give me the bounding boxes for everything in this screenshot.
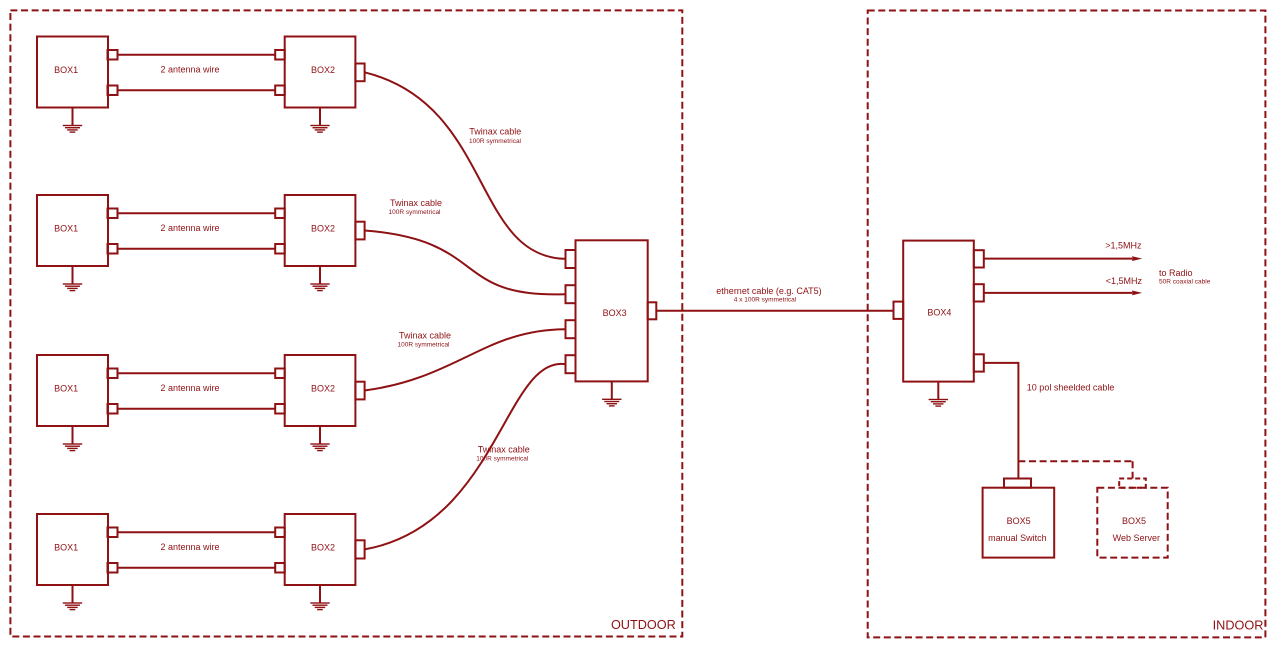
box BOX1 row1 <box>37 37 108 108</box>
BOX2 row2 output connector <box>355 222 364 240</box>
svg-text:Twinax cable: Twinax cable <box>478 445 530 455</box>
BOX2 row2 port b <box>275 244 285 254</box>
dashed wire to web server vertical <box>1132 461 1134 478</box>
svg-text:OUTDOOR: OUTDOOR <box>611 618 676 632</box>
svg-text:BOX1: BOX1 <box>54 383 78 393</box>
label <1,5MHz <box>1106 276 1143 286</box>
BOX2 row1 port a <box>275 50 285 60</box>
svg-text:>1,5MHz: >1,5MHz <box>1105 241 1142 251</box>
svg-text:100R symmetrical: 100R symmetrical <box>469 138 522 145</box>
ground under BOX2 row3 <box>310 426 329 451</box>
box BOX1 row3 <box>37 355 108 426</box>
BOX2 row4 port a <box>275 528 285 538</box>
label ethernet cable <box>716 286 821 304</box>
antenna wire 2a <box>118 212 276 214</box>
ground under BOX3 <box>602 381 621 406</box>
ethernet wire BOX3 to BOX4 <box>656 310 893 312</box>
label to Radio <box>1159 268 1211 286</box>
ground under BOX2 row4 <box>310 585 329 610</box>
OUTDOOR zone dashed border <box>10 10 682 636</box>
antenna wire 1a <box>118 54 276 56</box>
ground under BOX2 row1 <box>310 108 329 133</box>
arrow wire >1,5MHz <box>984 256 1142 261</box>
box BOX5 manual switch <box>983 488 1055 558</box>
BOX1 row3 port b <box>108 404 118 414</box>
BOX1 row3 port a <box>108 369 118 379</box>
INDOOR label <box>1213 619 1264 633</box>
ground under BOX1 row4 <box>63 585 82 610</box>
svg-text:to Radio: to Radio <box>1159 268 1193 278</box>
label Twinax cable row2 <box>388 198 442 216</box>
svg-text:Web Server: Web Server <box>1113 533 1160 543</box>
label Twinax cable row1 <box>469 127 522 145</box>
BOX1 row2 port b <box>108 244 118 254</box>
box BOX1 row4 <box>37 514 108 585</box>
BOX3 input connector 3 <box>566 320 576 338</box>
BOX2 row3 port a <box>275 369 285 379</box>
twinax wire row4 to BOX3 <box>365 364 566 550</box>
antenna wire 4b <box>118 567 276 569</box>
wire BOX4 to BOX5 solid part <box>984 363 1019 479</box>
svg-text:BOX2: BOX2 <box>311 383 335 393</box>
svg-text:4 x 100R symmetrical: 4 x 100R symmetrical <box>734 297 797 304</box>
arrow wire <1,5MHz <box>984 291 1142 296</box>
BOX1 row1 port a <box>108 50 118 60</box>
box BOX4 <box>903 241 974 382</box>
svg-text:INDOOR: INDOOR <box>1213 619 1264 633</box>
antenna wire 1b <box>118 89 276 91</box>
BOX4 output connector 1 <box>974 250 984 267</box>
BOX3 input connector 1 <box>566 250 576 268</box>
ground under BOX1 row3 <box>63 426 82 451</box>
svg-text:Twinax cable: Twinax cable <box>469 127 521 137</box>
svg-text:ethernet cable (e.g. CAT5): ethernet cable (e.g. CAT5) <box>716 286 821 296</box>
antenna wire 3b <box>118 408 276 410</box>
svg-text:<1,5MHz: <1,5MHz <box>1106 276 1143 286</box>
svg-text:50R coaxial cable: 50R coaxial cable <box>1159 279 1211 286</box>
INDOOR zone dashed border <box>868 11 1266 638</box>
svg-text:2 antenna wire: 2 antenna wire <box>160 542 219 552</box>
ground under BOX2 row2 <box>310 266 329 291</box>
svg-text:BOX5: BOX5 <box>1122 516 1146 526</box>
BOX2 row1 output connector <box>355 64 364 82</box>
ground under BOX1 row1 <box>63 108 82 133</box>
BOX3 output connector <box>648 302 657 319</box>
BOX2 row4 port b <box>275 563 285 573</box>
svg-text:BOX4: BOX4 <box>927 308 951 318</box>
twinax wire row2 to BOX3 <box>365 231 566 295</box>
svg-text:manual Switch: manual Switch <box>988 533 1047 543</box>
BOX1 row2 port a <box>108 209 118 219</box>
box BOX2 row2 <box>285 195 356 266</box>
BOX2 row3 port b <box>275 404 285 414</box>
label Twinax cable row4 <box>476 445 530 463</box>
ground under BOX4 <box>929 382 948 407</box>
antenna wire 2b <box>118 248 276 250</box>
twinax wire row1 to BOX3 <box>365 72 566 259</box>
label 10 pol sheelded cable <box>1027 382 1115 392</box>
svg-text:100R symmetrical: 100R symmetrical <box>397 341 450 348</box>
svg-text:2 antenna wire: 2 antenna wire <box>160 65 219 75</box>
label 2 antenna wire row4 <box>160 542 219 552</box>
svg-text:BOX2: BOX2 <box>311 542 335 552</box>
twinax wire row3 to BOX3 <box>365 329 566 390</box>
svg-text:BOX2: BOX2 <box>311 223 335 233</box>
svg-text:BOX2: BOX2 <box>311 65 335 75</box>
BOX5 top connector <box>1004 479 1031 488</box>
svg-text:100R symmetrical: 100R symmetrical <box>388 209 441 216</box>
label >1,5MHz <box>1105 241 1142 251</box>
BOX1 row1 port b <box>108 86 118 96</box>
BOX4 output connector 2 <box>974 284 984 301</box>
box BOX2 row3 <box>285 355 356 426</box>
BOX4 output connector 3 <box>974 354 984 371</box>
label 2 antenna wire row3 <box>160 383 219 393</box>
svg-text:Twinax cable: Twinax cable <box>390 198 442 208</box>
box BOX5 web server dashed <box>1097 488 1167 558</box>
svg-text:100R symmetrical: 100R symmetrical <box>476 456 529 463</box>
box BOX3 <box>576 240 648 381</box>
BOX3 input connector 4 <box>566 355 576 373</box>
BOX2 row2 port a <box>275 209 285 219</box>
ground under BOX1 row2 <box>63 266 82 291</box>
svg-text:BOX5: BOX5 <box>1007 516 1031 526</box>
BOX1 row4 port b <box>108 563 118 573</box>
box BOX1 row2 <box>37 195 108 266</box>
BOX4 input connector <box>894 302 904 319</box>
BOX3 input connector 2 <box>566 285 576 303</box>
BOX2 row4 output connector <box>355 540 364 558</box>
svg-text:BOX3: BOX3 <box>603 308 627 318</box>
BOX2 row1 port b <box>275 86 285 96</box>
antenna wire 3a <box>118 372 276 374</box>
label Twinax cable row3 <box>397 330 451 348</box>
OUTDOOR label <box>611 618 676 632</box>
box BOX2 row1 <box>285 37 356 108</box>
svg-text:Twinax cable: Twinax cable <box>399 330 451 340</box>
BOX5 web server top connector dashed <box>1119 479 1146 488</box>
label 2 antenna wire row1 <box>160 65 219 75</box>
svg-text:2 antenna wire: 2 antenna wire <box>160 383 219 393</box>
dashed wire to web server horizontal <box>1018 460 1132 462</box>
BOX2 row3 output connector <box>355 382 364 400</box>
svg-text:10 pol sheelded cable: 10 pol sheelded cable <box>1027 382 1115 392</box>
svg-text:BOX1: BOX1 <box>54 542 78 552</box>
svg-text:BOX1: BOX1 <box>54 65 78 75</box>
label 2 antenna wire row2 <box>160 223 219 233</box>
box BOX2 row4 <box>285 514 356 585</box>
svg-text:BOX1: BOX1 <box>54 223 78 233</box>
antenna wire 4a <box>118 531 276 533</box>
svg-text:2 antenna wire: 2 antenna wire <box>160 223 219 233</box>
BOX1 row4 port a <box>108 528 118 538</box>
